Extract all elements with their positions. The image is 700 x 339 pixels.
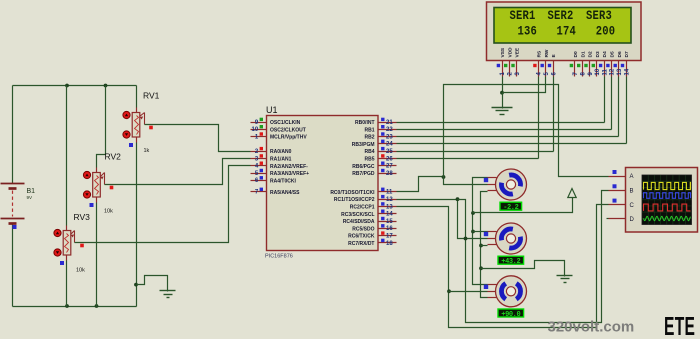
svg-text:D0: D0: [573, 51, 579, 57]
pin 24 RB3/PGM of U1: [352, 140, 397, 148]
motor SERVO2 body: [488, 223, 527, 254]
node VSS ground junction: [500, 91, 504, 95]
svg-text:25: 25: [386, 149, 393, 155]
node RV1 ground branch: [134, 283, 138, 287]
svg-text:RC0/T1OSO/T1CKI: RC0/T1OSO/T1CKI: [330, 190, 375, 196]
svg-text:10k: 10k: [76, 268, 85, 274]
wire RV1 wiper to pin2: [145, 125, 251, 152]
node top rail RV2: [104, 84, 108, 88]
svg-text:RV2: RV2: [105, 152, 122, 162]
svg-text:RC6/TX/CK: RC6/TX/CK: [348, 234, 375, 240]
pin 18 RC7/RX/DT of U1: [348, 239, 396, 247]
svg-text:9V: 9V: [27, 195, 34, 200]
oscilloscope trace D green: [644, 216, 691, 220]
svg-text:15: 15: [386, 219, 393, 225]
wire to power terminal: [473, 198, 573, 213]
node top rail RV3: [65, 84, 69, 88]
svg-text:RA4/T0CKI: RA4/T0CKI: [270, 178, 296, 184]
pin D of oscilloscope: [609, 217, 635, 223]
svg-text:10: 10: [595, 68, 601, 75]
power terminal arrow: [568, 189, 576, 198]
servo1 state square: [484, 178, 488, 182]
battery state square: [13, 225, 17, 229]
node power bus arrow branch: [471, 211, 475, 215]
wire RB1 to D5: [397, 129, 612, 131]
pin 12 D5 of LCD: [606, 51, 616, 76]
pin 28 RB7/PGD of U1: [352, 169, 396, 177]
servo3 angle display +90.0: [497, 308, 524, 319]
svg-text:21: 21: [386, 120, 393, 126]
svg-text:16: 16: [386, 226, 393, 232]
svg-text:RB5: RB5: [364, 157, 374, 163]
pin 9 OSC1/CLKIN of U1: [251, 118, 301, 126]
wire RW to ground junction: [503, 77, 546, 93]
node common bus servo2 branch: [479, 244, 483, 248]
wire RB0 to D4: [397, 122, 605, 124]
pin 9 D2 of LCD: [584, 51, 594, 76]
svg-text:RA3/AN3/VREF+: RA3/AN3/VREF+: [270, 171, 309, 177]
pin C of oscilloscope: [609, 199, 635, 209]
wire RC1 to servo2 signal: [397, 200, 488, 239]
wire RC0 junction up to scope A rail: [444, 85, 609, 177]
oscilloscope body: [626, 168, 698, 233]
wire RV3 wiper to pin4: [75, 166, 251, 243]
svg-text:VDD: VDD: [507, 47, 513, 58]
svg-text:200: 200: [596, 23, 615, 38]
svg-text:D2: D2: [588, 51, 594, 57]
wire RB4 to E: [397, 151, 554, 153]
svg-text:RC5/SDO: RC5/SDO: [352, 226, 374, 232]
svg-text:22: 22: [386, 127, 393, 133]
wire RV2 top vertical with jog: [97, 86, 106, 168]
wire VSS to ground: [502, 77, 504, 93]
pin 10 OSC2/CLKOUT of U1: [251, 125, 306, 133]
pin 5 RA3/AN3/VREF+ of U1: [251, 169, 310, 177]
wire RV3 bottom vertical: [66, 261, 68, 307]
wire RC2 branch to servo3 signal: [449, 291, 488, 293]
wire top rail: [13, 85, 137, 87]
svg-text:320volt.com: 320volt.com: [548, 319, 635, 336]
ground right: [557, 276, 573, 283]
svg-text:-2.2: -2.2: [503, 204, 518, 212]
node bottom rail RV3: [65, 304, 69, 308]
pin 21 RB0/INT of U1: [355, 118, 396, 126]
pin 8 D1 of LCD: [577, 51, 587, 76]
svg-text:10k: 10k: [104, 209, 113, 215]
svg-text:SER3: SER3: [586, 8, 612, 23]
svg-text:OSC2/CLKOUT: OSC2/CLKOUT: [270, 127, 306, 133]
wire RB5 to RS: [397, 158, 539, 160]
svg-text:RV1: RV1: [143, 91, 160, 101]
pin 25 RB4 of U1: [364, 147, 396, 155]
pin 5 RW of LCD: [541, 49, 551, 76]
svg-text:RB2: RB2: [364, 135, 374, 141]
node RC0 junction: [442, 175, 446, 179]
pin A of oscilloscope: [609, 170, 634, 180]
svg-text:174: 174: [557, 23, 576, 38]
wire RB3 to D7: [397, 143, 627, 145]
svg-text:24: 24: [386, 142, 393, 148]
oscilloscope trace B blue: [644, 193, 691, 199]
LCD screen: [494, 8, 631, 44]
wire RB2 to D6: [397, 136, 619, 138]
svg-text:11: 11: [386, 190, 393, 196]
wire battery negative vertical: [12, 225, 14, 307]
pin 17 RC6/TX/CK of U1: [348, 231, 396, 239]
svg-text:RV3: RV3: [74, 212, 91, 222]
servo2 angle display +43.2: [497, 256, 524, 267]
LCD text row 1: [509, 8, 611, 23]
wire servo common bus: [481, 192, 488, 298]
pin 3 VEE of LCD: [511, 47, 521, 76]
pin 15 RC4/SDI/SDA of U1: [343, 217, 397, 225]
pin 1 VSS of LCD: [497, 47, 507, 76]
svg-text:RA5/AN4/SS: RA5/AN4/SS: [270, 190, 300, 196]
node common bus ground branch: [479, 266, 483, 270]
wire E to RB4: [553, 77, 555, 152]
svg-text:SER1: SER1: [509, 8, 535, 23]
ground left: [160, 291, 176, 298]
svg-text:13: 13: [617, 68, 623, 75]
pin 2 VDD of LCD: [504, 47, 514, 77]
wire RC0 junction to servo1 signal: [444, 177, 488, 185]
pin 13 D6 of LCD: [614, 51, 624, 76]
pin 6 E of LCD: [548, 54, 558, 77]
pin 2 RA0/AN0 of U1: [251, 147, 292, 155]
svg-text:12: 12: [610, 68, 616, 75]
svg-text:23: 23: [386, 134, 393, 140]
svg-text:RC4/SDI/SDA: RC4/SDI/SDA: [343, 219, 375, 225]
pin 26 RB5 of U1: [364, 154, 396, 162]
wire oscilloscope D stub: [607, 218, 609, 220]
servo2 state square: [484, 232, 488, 236]
svg-text:MCLR/Vpp/THV: MCLR/Vpp/THV: [270, 135, 307, 141]
oscilloscope trace A yellow: [644, 182, 691, 189]
svg-text:RA2/AN2/VREF-: RA2/AN2/VREF-: [270, 164, 308, 170]
svg-text:+43.2: +43.2: [501, 258, 520, 266]
svg-text:RB7/PGD: RB7/PGD: [352, 171, 375, 177]
potentiometer RV2: [83, 168, 113, 208]
svg-text:RA1/AN1: RA1/AN1: [270, 157, 292, 163]
svg-text:136: 136: [518, 23, 537, 38]
pin 14 RC3/SCK/SCL of U1: [341, 210, 396, 218]
potentiometer RV1: [123, 108, 153, 148]
svg-text:RA0/AN0: RA0/AN0: [270, 149, 292, 155]
wire bottom rail: [13, 306, 137, 308]
wire ground stub under LCD: [502, 93, 504, 108]
pin 23 RB2 of U1: [364, 132, 396, 140]
wire RV1 bottom vertical: [136, 143, 138, 307]
svg-text:RC1/T1OSI/CCP2: RC1/T1OSI/CCP2: [334, 197, 375, 203]
svg-text:18: 18: [386, 241, 393, 247]
wire D4 to RB0: [604, 77, 606, 123]
wire RC0 to servo1 and scope A: [397, 177, 444, 192]
svg-text:RC2/CCP1: RC2/CCP1: [350, 205, 375, 211]
svg-text:D7: D7: [624, 51, 630, 57]
svg-text:ETE: ETE: [664, 312, 695, 339]
svg-text:B: B: [630, 189, 634, 195]
potentiometer RV3: [54, 226, 84, 266]
node RC1 branch junction: [456, 197, 460, 201]
pin 7 D0 of LCD: [570, 51, 580, 76]
svg-text:RB6/PGC: RB6/PGC: [352, 164, 375, 170]
wire RC2 to servo3 and scope C: [397, 205, 609, 328]
motor SERVO3 body: [488, 276, 527, 307]
node RC2 servo3 branch: [447, 289, 451, 293]
svg-text:RB1: RB1: [364, 127, 374, 133]
wire power bus to servo2: [473, 231, 488, 233]
pin 12 RC1/T1OSI/CCP2 of U1: [334, 195, 397, 203]
svg-text:10: 10: [252, 127, 259, 133]
wire common bus to servo2: [481, 245, 488, 247]
svg-text:28: 28: [386, 171, 393, 177]
pin 14 D7 of LCD: [621, 51, 631, 76]
svg-text:RB3/PGM: RB3/PGM: [352, 142, 375, 148]
servo3 state square: [484, 285, 488, 289]
pin 4 RS of LCD: [533, 50, 543, 76]
wire D7 to RB3: [626, 77, 628, 144]
node bottom rail RV2: [95, 304, 99, 308]
wire RV1 top vertical: [136, 86, 138, 108]
svg-text:OSC1/CLKIN: OSC1/CLKIN: [270, 120, 301, 126]
wire D6 to RB2: [618, 77, 620, 137]
pin 13 RC2/CCP1 of U1: [350, 202, 397, 210]
pin 16 RC5/SDO of U1: [352, 224, 396, 232]
pin 3 RA1/AN1 of U1: [251, 154, 292, 162]
svg-text:B1: B1: [27, 188, 36, 195]
pin 11 D4 of LCD: [599, 51, 609, 76]
LCD text row 2: [518, 23, 616, 38]
svg-text:12: 12: [386, 197, 393, 203]
svg-text:RB0/INT: RB0/INT: [355, 120, 374, 126]
pin 10 D3 of LCD: [592, 51, 602, 76]
svg-text:1k: 1k: [144, 148, 150, 154]
svg-text:D: D: [630, 217, 635, 223]
pin B of oscilloscope: [609, 184, 634, 194]
microcontroller U1 PIC16F876 body: [267, 116, 379, 251]
pin 27 RB6/PGC of U1: [352, 162, 396, 170]
svg-text:VEE: VEE: [515, 47, 521, 57]
svg-text:14: 14: [624, 68, 630, 75]
svg-text:A: A: [630, 174, 634, 180]
wire RS to RB5: [538, 77, 540, 159]
battery B1 9V: [1, 183, 25, 225]
svg-text:RC3/SCK/SCL: RC3/SCK/SCL: [341, 212, 374, 218]
svg-text:D4: D4: [602, 51, 608, 57]
svg-text:26: 26: [386, 156, 393, 162]
svg-text:C: C: [630, 203, 635, 209]
wire to left ground: [137, 276, 168, 291]
wire battery positive vertical: [12, 86, 14, 183]
ground LCD: [492, 108, 513, 115]
svg-text:SER2: SER2: [548, 8, 574, 23]
wire RC1 branch to scope B: [458, 191, 609, 323]
svg-text:13: 13: [386, 204, 393, 210]
pin 4 RA2/AN2/VREF- of U1: [251, 162, 309, 170]
pin 6 RA4/T0CKI of U1: [251, 176, 297, 184]
svg-text:RB4: RB4: [364, 149, 374, 155]
svg-text:27: 27: [386, 164, 393, 170]
svg-text:D3: D3: [595, 51, 601, 57]
pin 11 RC0/T1OSO/T1CKI of U1: [330, 188, 396, 196]
svg-text:D1: D1: [580, 51, 586, 57]
motor SERVO1 body: [488, 169, 527, 200]
pin 7 RA5/AN4/SS of U1: [251, 188, 301, 196]
svg-text:17: 17: [386, 234, 393, 240]
oscilloscope screen grid: [642, 175, 692, 225]
wire RV2 bottom vertical: [96, 203, 98, 307]
oscilloscope trace C red: [644, 204, 691, 211]
node RC1 scope-B leg crossing servo2 wire: [464, 237, 468, 241]
pin 1 MCLR/Vpp/THV of U1: [251, 132, 308, 140]
servo1 angle display -2.2: [499, 202, 522, 213]
svg-text:RS: RS: [537, 50, 543, 57]
wire D5 to RB1: [611, 77, 613, 130]
svg-text:U1: U1: [266, 105, 278, 115]
LCD display LCD1 body: [487, 2, 642, 61]
svg-text:D6: D6: [617, 51, 623, 57]
wire common bus to right ground: [481, 261, 565, 276]
svg-text:PIC16F876: PIC16F876: [265, 254, 293, 260]
svg-text:14: 14: [386, 212, 393, 218]
svg-text:+90.0: +90.0: [501, 311, 520, 319]
wire RV3 top vertical: [66, 86, 68, 226]
svg-text:VSS: VSS: [500, 47, 506, 57]
wire servo power bus: [473, 178, 488, 285]
svg-text:RW: RW: [544, 49, 550, 57]
oscilloscope screen: [642, 175, 692, 225]
svg-text:11: 11: [602, 68, 608, 75]
svg-text:D5: D5: [610, 51, 616, 57]
pin 22 RB1 of U1: [364, 125, 396, 133]
wire RV2 wiper to pin3: [105, 159, 251, 185]
node power bus servo2 branch: [471, 230, 475, 234]
svg-text:RC7/RX/DT: RC7/RX/DT: [348, 241, 374, 247]
